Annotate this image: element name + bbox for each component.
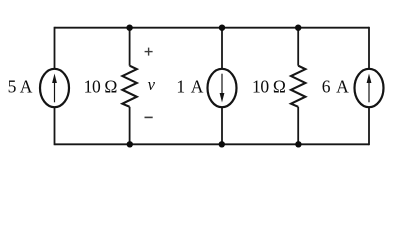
wire bottom rail (55, 143, 370, 145)
label plus polarity (145, 48, 153, 56)
wire branch R1 bottom stub (129, 107, 131, 145)
wire branch R2 top stub (297, 28, 299, 66)
current source I2 arrow down (220, 74, 225, 103)
svg-text:5 A: 5 A (8, 76, 33, 96)
wire top rail (55, 27, 370, 29)
junction dot bottom node R1 (127, 141, 133, 147)
svg-text:10 Ω: 10 Ω (84, 76, 118, 96)
label minus polarity (145, 116, 153, 118)
current source I2 1A circle (208, 69, 237, 107)
current source I1 arrow up (52, 74, 57, 103)
svg-text:10 Ω: 10 Ω (252, 76, 286, 96)
wire branch R1 top stub (129, 28, 131, 66)
junction dot bottom node I2 (219, 141, 225, 147)
svg-text:v: v (148, 75, 156, 94)
current source I1 5A circle (40, 69, 69, 107)
svg-text:1 A: 1 A (176, 76, 203, 96)
junction dot top node R1 (126, 25, 132, 31)
current source I3 arrow up (367, 74, 372, 103)
resistor R2 10ohm zigzag (291, 66, 305, 107)
svg-text:6 A: 6 A (322, 76, 349, 96)
junction dot top node R2 (295, 25, 301, 31)
wire right branch (368, 27, 370, 145)
wire left branch (54, 27, 56, 145)
junction dot bottom node R2 (295, 141, 301, 147)
current source I3 6A circle (355, 69, 384, 107)
junction dot top node I2 (219, 25, 225, 31)
resistor R1 10ohm zigzag (122, 66, 136, 107)
wire branch I2 middle (221, 28, 223, 145)
wire branch R2 bottom stub (297, 107, 299, 145)
